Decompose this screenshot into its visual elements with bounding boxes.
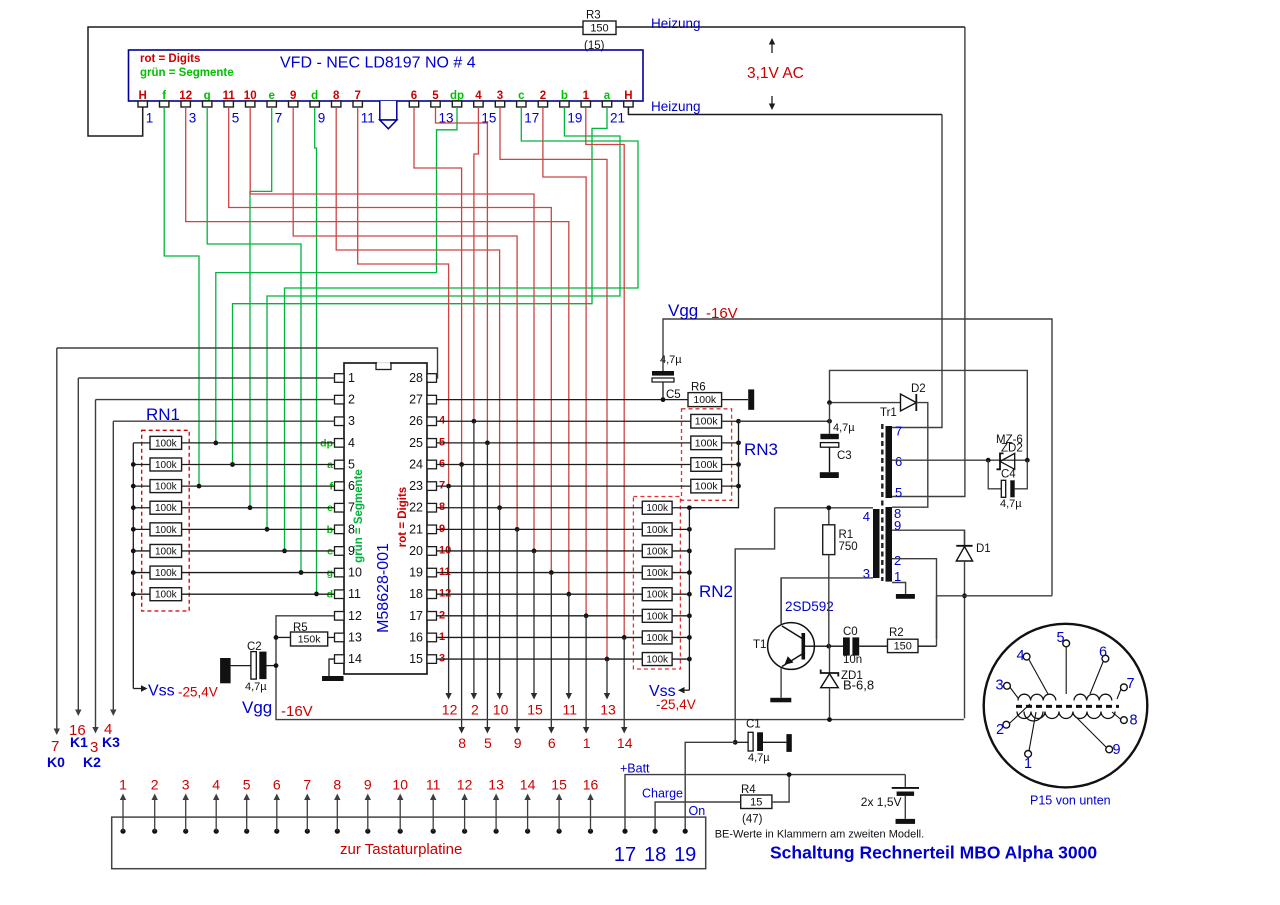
svg-text:9: 9 [514,735,522,751]
resistor RN1-1 100k [133,442,150,444]
svg-text:dp: dp [450,90,464,102]
wire keyboard column 8 [461,464,463,728]
zener ZD1 B-6,8 [829,646,831,672]
svg-text:1: 1 [894,569,901,584]
svg-text:8: 8 [348,522,355,536]
svg-text:13: 13 [348,630,362,644]
wire segment e (green) [250,107,272,508]
svg-text:Schaltung Rechnerteil MBO Alph: Schaltung Rechnerteil MBO Alpha 3000 [770,843,1097,863]
svg-text:20: 20 [409,544,423,558]
svg-text:3: 3 [182,777,190,793]
connector pin 14 [525,829,530,834]
wire heater trunk B (to Tr1 pin 5) [892,27,965,497]
svg-text:-25,4V: -25,4V [656,697,696,712]
svg-text:21: 21 [610,111,625,126]
connector pin 17 [622,829,627,834]
svg-text:19: 19 [409,566,423,580]
wire Tr1 pin1 to ground [892,583,906,595]
connector pin 12 [462,829,467,834]
svg-text:2: 2 [471,702,479,718]
svg-text:K2: K2 [83,754,101,770]
svg-text:2: 2 [151,777,159,793]
svg-text:d: d [311,90,318,102]
svg-text:K3: K3 [102,734,120,750]
svg-text:8: 8 [333,777,341,793]
svg-text:100k: 100k [693,394,717,406]
wire RN1 row 7 to IC [182,572,335,574]
wire digit 8 (red) [336,107,499,508]
wire IC pin1 to K1 [78,377,334,379]
svg-text:H: H [624,90,632,102]
svg-text:R3: R3 [586,10,601,22]
resistor R6 row (pin 27) [437,399,689,401]
IC U1 pin 23 [427,482,437,491]
IC U1 pin 3 [335,417,345,426]
svg-text:100k: 100k [155,525,178,536]
IC U1 pin 28 [427,374,437,383]
svg-text:14: 14 [348,652,362,666]
wire IC pin3 to K3 [113,420,334,422]
wire keyboard column 2 [473,421,475,694]
connector pin 9 [365,829,370,834]
IC U1 pin 13 [335,633,345,642]
svg-text:5: 5 [232,111,240,126]
resistor network RN3 dashed box [682,409,732,501]
svg-text:+Batt: +Batt [620,762,650,776]
wire RN1 row 8 to IC [182,593,335,595]
svg-text:RN1: RN1 [146,405,180,424]
svg-text:15: 15 [750,796,762,808]
svg-text:R1: R1 [839,529,854,541]
transformer P15 terminal 4 [1023,653,1030,660]
ground (battery) [896,819,916,824]
svg-text:100k: 100k [646,546,669,557]
IC U1 pin 1 [335,374,345,383]
svg-text:100k: 100k [155,590,178,601]
svg-text:100k: 100k [695,437,719,449]
connector pin 5 [244,829,249,834]
svg-text:25: 25 [409,436,423,450]
svg-text:1: 1 [119,777,127,793]
wire digit 1 (red) [586,107,624,637]
IC U1 pin 22 [427,503,437,512]
svg-text:19: 19 [674,844,696,866]
resistor RN2-2 100k [437,528,643,530]
svg-text:10: 10 [493,702,509,718]
wire RN1 row 1 to IC [182,442,335,444]
svg-text:7: 7 [303,777,311,793]
wire +Batt staircase to Tr1 pin4 [735,508,774,743]
svg-text:5: 5 [895,485,902,500]
svg-text:100k: 100k [695,481,719,493]
resistor network RN2 dashed box [633,497,680,670]
wire Vgg loop (IC pin 12) [276,616,964,720]
resistor RN3-1 100k [437,420,691,422]
capacitor C4 4,7u [988,460,1001,489]
resistor R2 150 [859,645,887,647]
svg-text:6: 6 [411,90,417,102]
svg-text:6: 6 [548,735,556,751]
svg-text:10: 10 [348,566,362,580]
svg-text:-16V: -16V [281,703,313,720]
svg-text:ZD2: ZD2 [1001,443,1023,455]
svg-text:7: 7 [51,738,59,755]
svg-text:C4: C4 [1001,469,1016,481]
resistor RN3-4 100k [437,485,691,487]
wire R2 to Tr1 pin2 [918,645,937,647]
connector pin 4 [214,829,219,834]
svg-text:12: 12 [442,702,458,718]
resistor RN2-7 100k [437,636,643,638]
svg-text:9: 9 [1113,742,1121,758]
wire Tr1 pin4 feed [775,507,873,509]
svg-text:14: 14 [617,735,633,751]
wire segment f (green) [164,107,199,486]
svg-text:4,7µ: 4,7µ [833,422,855,434]
svg-text:100k: 100k [155,460,178,471]
svg-text:24: 24 [409,457,423,471]
svg-text:f: f [162,90,166,102]
svg-text:17: 17 [524,111,539,126]
transformer P15 upper winding [1018,694,1056,700]
wire digit 4 (red) [474,107,479,421]
IC U1 pin 7 [335,503,345,512]
IC U1 pin 4 [335,439,345,448]
IC U1 pin 27 [427,395,437,404]
resistor RN3-2 100k [437,442,691,444]
wire IC pin2 to K2 [96,399,335,401]
display VFD box [129,50,644,101]
svg-text:150: 150 [894,640,912,652]
wire D2 anode to ZD2 (top link) [830,370,1028,460]
wire +Batt (pin17) [625,775,905,832]
wire heater top rail [88,27,583,136]
resistor RN1-6 100k [133,550,150,552]
connector pin 7 [305,829,310,834]
IC U1 pin 25 [427,439,437,448]
IC U1 pin 26 [427,417,437,426]
IC U1 pin 18 [427,590,437,599]
wire RN1 row 6 to IC [182,550,335,552]
svg-text:5: 5 [484,735,492,751]
svg-text:100k: 100k [646,655,669,666]
wire IC pin28 to K0 [57,348,438,378]
svg-text:R4: R4 [741,784,756,796]
transformer Tr1 lower-right winding bar [886,507,893,582]
transformer P15 terminal 9 [1106,746,1113,753]
svg-text:7: 7 [1127,676,1135,692]
svg-text:6: 6 [1099,645,1107,661]
svg-text:750: 750 [839,541,858,553]
svg-text:7: 7 [348,501,355,515]
svg-text:VFD - NEC LD8197 NO # 4: VFD - NEC LD8197 NO # 4 [280,55,476,72]
IC U1 pin 21 [427,525,437,534]
wire Tr1 pin6 (ZD2 net) [892,459,1027,461]
svg-text:5: 5 [432,90,439,102]
svg-text:100k: 100k [155,482,178,493]
svg-text:100k: 100k [646,503,669,514]
svg-text:21: 21 [409,522,423,536]
svg-text:11: 11 [348,587,361,601]
svg-text:17: 17 [409,609,423,623]
svg-text:100k: 100k [695,416,719,428]
IC U1 pin 15 [427,655,437,664]
battery 2x 1,5V [904,775,906,787]
svg-text:100k: 100k [646,525,669,536]
svg-text:H: H [139,90,147,102]
connector pin 15 [557,829,562,834]
IC U1 pin 2 [335,395,345,404]
wire D1 rail to Vgg trunk [937,595,1053,597]
wire keyboard column 15 [533,551,535,695]
svg-text:On: On [689,804,706,818]
wire heater bottom (right H pin to trunk) [628,107,942,115]
svg-text:100k: 100k [646,590,669,601]
svg-text:11: 11 [426,777,441,793]
svg-text:8: 8 [458,735,466,751]
IC U1 M58628-001 body [344,363,427,674]
svg-text:150k: 150k [298,634,322,646]
svg-text:5: 5 [348,457,355,471]
svg-text:-16V: -16V [706,305,738,322]
transformer Tr1 upper winding bar [886,426,893,498]
svg-text:4: 4 [212,777,220,793]
svg-text:27: 27 [409,393,423,407]
resistor RN2-4 100k [437,572,643,574]
svg-text:6: 6 [895,454,902,469]
svg-text:a: a [604,90,611,102]
svg-text:3: 3 [348,414,355,428]
svg-text:2SD592: 2SD592 [785,599,834,614]
wire digit 9 (red) [293,107,517,529]
wire T1 emitter to ground [780,668,782,698]
svg-text:100k: 100k [155,568,178,579]
svg-text:Vgg: Vgg [242,698,272,717]
IC U1 pin 16 [427,633,437,642]
svg-text:100k: 100k [646,568,669,579]
svg-text:150: 150 [590,22,608,34]
transformer P15 circle (von unten) [984,624,1148,788]
svg-text:7: 7 [354,90,360,102]
connector pin 10 [398,829,403,834]
svg-text:e: e [268,90,274,102]
svg-text:2: 2 [894,553,901,568]
svg-text:19: 19 [567,111,582,126]
wire segment b (green) [267,107,620,529]
svg-text:b: b [561,90,568,102]
svg-text:P15 von unten: P15 von unten [1030,794,1111,808]
svg-text:3: 3 [497,90,503,102]
capacitor C1 4,7u [733,740,738,745]
svg-text:C0: C0 [843,626,858,638]
wire RN1 row 3 to IC [182,485,335,487]
svg-text:C2: C2 [247,641,262,653]
svg-text:100k: 100k [646,633,669,644]
wire digit 6 (red) [414,107,462,464]
IC U1 pin 12 [335,612,345,621]
IC U1 pin 24 [427,460,437,469]
svg-text:11: 11 [223,90,236,102]
IC U1 pin 14 [335,655,345,664]
svg-text:6: 6 [273,777,281,793]
svg-text:3: 3 [863,566,870,581]
wire RN3 bus [689,421,738,507]
svg-text:4,7µ: 4,7µ [245,681,267,693]
wire segment g (green) [207,107,301,573]
svg-text:R2: R2 [889,627,904,639]
svg-text:3: 3 [189,111,197,126]
ground (T1 emitter) [770,698,791,703]
svg-text:11: 11 [563,702,578,718]
wire digit 7 (red) [358,107,449,486]
wire digit 3 (red) [500,107,607,659]
svg-text:zur Tastaturplatine: zur Tastaturplatine [340,841,462,858]
svg-text:9: 9 [364,777,372,793]
connector pin 19 [683,829,688,834]
wire Tr1 pin9 to D1 [892,530,965,545]
svg-text:D2: D2 [911,383,926,395]
capacitor C3 4,7u [829,403,831,434]
wire keyboard column 11 [568,594,570,694]
svg-text:4: 4 [863,509,870,524]
wire heater trunk A (to Tr1 pin 7) [892,115,942,428]
svg-text:9: 9 [290,90,296,102]
svg-text:Vgg: Vgg [668,301,698,320]
svg-text:1: 1 [1024,756,1032,772]
IC U1 pin 11 [335,590,345,599]
wire segment a (green) [233,107,608,465]
resistor RN2-5 100k [437,593,643,595]
wire RN2 bus [688,508,690,691]
svg-text:100k: 100k [155,546,178,557]
wire keyboard column 6 [550,573,552,729]
svg-text:11: 11 [361,111,375,126]
svg-text:2: 2 [348,393,355,407]
svg-text:4,7µ: 4,7µ [748,752,770,764]
connector pin 8 [335,829,340,834]
IC U1 pin 5 [335,460,345,469]
svg-text:17: 17 [614,844,636,866]
svg-text:rot = Digits: rot = Digits [140,53,200,65]
wire keyboard column 12 [448,486,450,694]
wire D2 cathode to Tr1 pin8 [892,403,928,508]
wire RN1 common bus [132,443,134,689]
transformer P15 terminal 1 [1025,751,1032,758]
VFD evacuation tip symbol [380,101,397,120]
resistor RN1-3 100k [133,485,150,487]
wire digit 5 (red) [436,107,488,443]
svg-text:grün = Segmente: grün = Segmente [140,67,234,79]
svg-text:3,1V AC: 3,1V AC [747,65,804,82]
transformer P15 terminal 7 [1121,684,1128,691]
transformer P15 core dashed [1016,705,1119,708]
connector pin 1 [120,829,125,834]
svg-text:T1: T1 [753,639,766,651]
node Vss (right) [683,689,689,691]
svg-text:4,7µ: 4,7µ [660,354,682,366]
svg-text:C1: C1 [746,719,761,731]
IC U1 pin 19 [427,568,437,577]
svg-text:6: 6 [348,479,355,493]
svg-text:2: 2 [996,722,1004,738]
connector pin 3 [183,829,188,834]
svg-text:12: 12 [457,777,473,793]
resistor RN2-3 100k [437,550,643,552]
IC U1 pin 8 [335,525,345,534]
capacitor C2 4,7u [220,658,231,683]
svg-text:8: 8 [1130,713,1138,729]
connector pin 13 [494,829,499,834]
svg-text:5: 5 [243,777,251,793]
svg-text:1: 1 [348,371,355,385]
svg-text:BE-Werte in Klammern am zweite: BE-Werte in Klammern am zweiten Modell. [715,829,924,841]
transformer Tr1 core (dashed) [881,424,883,581]
wire Tr1 pin3 to T1 collector [781,578,873,623]
connector zur Tastaturplatine box [112,817,706,869]
svg-text:100k: 100k [155,438,178,449]
svg-text:10: 10 [244,90,257,102]
svg-text:10: 10 [392,777,408,793]
svg-text:9: 9 [348,544,355,558]
svg-text:13: 13 [488,777,504,793]
IC U1 pin 6 [335,482,345,491]
wire digit 11 (red) [229,107,552,573]
IC U1 pin 17 [427,612,437,621]
svg-text:1: 1 [583,735,591,751]
connector pin 2 [152,829,157,834]
wire segment d (green) [315,107,317,594]
svg-text:R6: R6 [691,382,706,394]
svg-text:3: 3 [996,678,1004,694]
wire keyboard column 14 [623,637,625,728]
resistor RN1-7 100k [133,572,150,574]
svg-text:-25,4V: -25,4V [178,685,218,700]
net Vgg rail [663,319,1052,596]
wire keyboard column 9 [516,529,518,728]
transformer P15 terminal 8 [1121,717,1128,724]
svg-text:12: 12 [179,90,192,102]
svg-text:100k: 100k [695,459,719,471]
svg-text:C3: C3 [837,450,852,462]
resistor RN1-8 100k [133,593,150,595]
svg-text:RN2: RN2 [699,582,733,601]
svg-text:18: 18 [409,587,423,601]
svg-text:16: 16 [583,777,599,793]
wire digit 12 (red) [186,107,569,594]
arrow up (AC) [771,43,773,53]
svg-text:23: 23 [409,479,423,493]
svg-text:7: 7 [895,424,902,439]
transformer P15 terminal 3 [1004,682,1011,689]
svg-text:16: 16 [409,630,423,644]
svg-text:Tr1: Tr1 [880,407,897,419]
svg-text:12: 12 [348,609,362,623]
resistor RN3-3 100k [437,463,691,465]
svg-text:100k: 100k [646,611,669,622]
svg-text:4: 4 [475,90,482,102]
svg-text:100k: 100k [155,503,178,514]
node Vss (left) [133,688,142,690]
wire segment dp (green) [216,107,457,443]
svg-text:9: 9 [318,111,326,126]
wire Charge (pin18) + resistor R4 [655,802,741,831]
resistor RN2-1 100k [437,507,643,509]
transformer P15 terminal 5 [1063,640,1070,647]
wire RN1 row 4 to IC [182,507,335,509]
transformer P15 lower winding [1017,712,1115,719]
resistor network RN1 dashed box [142,430,190,611]
svg-text:K1: K1 [70,734,88,750]
